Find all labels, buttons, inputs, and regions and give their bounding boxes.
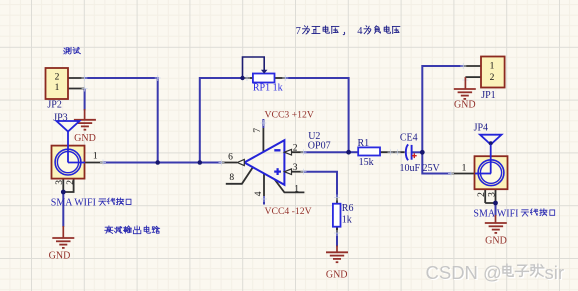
svg-text:8: 8	[229, 173, 234, 183]
svg-text:GND: GND	[326, 269, 348, 280]
pin RP1 right	[275, 77, 286, 79]
ground symbol JP1 GND	[454, 88, 476, 90]
svg-text:1: 1	[462, 164, 467, 174]
svg-text:OP07: OP07	[308, 140, 331, 151]
junction SMA1 shield	[61, 190, 66, 195]
svg-text:GND: GND	[49, 250, 71, 261]
ground symbol SMA2 stem	[495, 215, 497, 223]
svg-text:1: 1	[55, 83, 60, 93]
pin U2.3 line	[292, 171, 304, 173]
junction pin2 net	[346, 150, 351, 155]
wire VCC4 stub pin4	[263, 196, 265, 205]
svg-text:4: 4	[357, 26, 363, 37]
capacitor CE4 straight plate	[411, 145, 413, 160]
svg-text:4: 4	[254, 191, 264, 196]
svg-text:7: 7	[253, 128, 263, 133]
svg-text:VCC3 +12V: VCC3 +12V	[265, 109, 314, 120]
junction JP4 apex	[489, 141, 493, 145]
pin U2.6 output line	[222, 162, 238, 164]
junction JP2/main	[155, 160, 160, 165]
pin SMA1.3 stub	[62, 177, 64, 192]
svg-text:1: 1	[93, 151, 98, 161]
wire SMA1 center pin inner	[68, 162, 85, 164]
wire JP2 pin1 to GND	[84, 89, 86, 111]
ground symbol SMA2 GND	[485, 222, 507, 224]
watermark CSDN @电子张sir	[427, 263, 566, 284]
wire RP1 wiper loop	[243, 57, 265, 78]
svg-text:2: 2	[477, 192, 487, 197]
connector SMA2 inner ring	[480, 162, 501, 183]
svg-text:1k: 1k	[342, 214, 352, 225]
wire JP4 antenna feed	[490, 145, 492, 174]
wire JP2 pin2 to RP1 net (down to main wire)	[84, 78, 157, 163]
svg-text:JP2: JP2	[47, 100, 61, 111]
resistor RP1 wiper arrow	[261, 70, 268, 74]
connector SMA2 outer ring	[478, 160, 504, 186]
svg-text:sir: sir	[545, 262, 565, 283]
svg-text:GND: GND	[485, 235, 507, 246]
label 测试	[64, 47, 81, 54]
op-amp output arrow pin6	[237, 159, 244, 165]
svg-text:15k: 15k	[359, 157, 374, 168]
resistor R1 body	[358, 147, 380, 155]
label 衰减输出电路	[105, 226, 160, 234]
wire junction to R1	[349, 151, 359, 153]
pin JP1.1	[463, 65, 481, 67]
pin JP2.2	[68, 77, 84, 79]
svg-text:VCC4 -12V: VCC4 -12V	[265, 206, 312, 217]
svg-text:GND: GND	[454, 100, 476, 111]
svg-text:1: 1	[490, 62, 495, 72]
connector JP1 box	[481, 57, 505, 88]
wire pin2 to junction	[304, 151, 349, 153]
pin SMA2.1	[451, 173, 475, 175]
wire R1 to CE4	[380, 151, 405, 153]
connector SMA2 box	[475, 156, 508, 189]
svg-text:R6: R6	[342, 203, 354, 214]
antenna JP3	[57, 121, 80, 132]
pin JP1.2	[465, 76, 481, 78]
pin SMA1.2 stub	[63, 177, 73, 192]
op-amp input arrow pin3	[284, 169, 291, 175]
op-amp minus mark	[274, 149, 280, 151]
ground symbol SMA1 GND	[52, 237, 74, 239]
pin RP1 left	[244, 77, 253, 79]
wire VCC3 stub pin7	[262, 119, 264, 128]
wire junction to JP1 pin1	[422, 66, 463, 152]
capacitor CE4 curved plate	[406, 144, 408, 160]
junction CE4/JP1/SMA2	[420, 150, 425, 155]
wire JP3 antenna feed	[67, 132, 69, 163]
junction RP1 branch/main	[198, 160, 203, 165]
ground symbol SMA1 stem	[62, 226, 64, 238]
pin SMA2.2 stub	[484, 189, 486, 203]
wire SMA1 shield to GND	[62, 192, 64, 227]
wire main output net SMA1 to opamp pin6	[103, 162, 222, 164]
wire RP1 right to pin2 net	[285, 78, 348, 152]
svg-text:JP1: JP1	[481, 90, 495, 101]
ground symbol R6 stem	[336, 246, 338, 253]
pin U2.1 stub	[274, 179, 304, 192]
connector SMA1 inner ring	[57, 152, 78, 173]
pin R6 bottom	[336, 227, 338, 233]
wire junction to SMA2 pin1	[422, 152, 451, 173]
svg-text:2: 2	[490, 73, 495, 83]
svg-text:CSDN @: CSDN @	[426, 262, 502, 283]
svg-text:2: 2	[293, 143, 298, 153]
svg-text:2: 2	[66, 180, 76, 185]
pin U2.4 line	[263, 174, 265, 196]
wire SMA2 center pin inner	[475, 173, 491, 175]
svg-text:GND: GND	[74, 133, 96, 144]
connector SMA1 outer ring	[55, 149, 81, 175]
svg-text:1: 1	[294, 185, 299, 195]
resistor RP1 body	[253, 74, 275, 83]
pin hotspot crosses	[81, 75, 87, 81]
op-amp U2 triangle	[244, 140, 284, 185]
op-amp input arrow pin2	[284, 149, 291, 155]
capacitor CE4 plus mark	[412, 155, 417, 157]
svg-text:3: 3	[55, 180, 65, 185]
svg-text:SMA WIFI: SMA WIFI	[51, 198, 96, 209]
connector SMA1 box	[52, 146, 85, 179]
ground symbol R6 GND	[326, 251, 348, 253]
svg-text:7: 7	[296, 26, 301, 37]
op-amp plus mark	[274, 171, 281, 173]
pin U2.2 line	[292, 151, 304, 153]
pin JP2.1	[68, 88, 85, 90]
pin SMA2.3 stub	[485, 189, 495, 203]
ground symbol JP2 GND stem	[84, 109, 86, 120]
wire SMA2 shield to GND	[495, 203, 497, 216]
svg-text:RP1 1k: RP1 1k	[253, 83, 283, 94]
wire R6 to GND	[336, 227, 338, 247]
ground symbol JP2 GND	[74, 119, 96, 121]
wire RP1 branch vertical	[200, 78, 244, 163]
pin U2.7 line	[262, 128, 264, 152]
svg-text:10uF 25V: 10uF 25V	[400, 163, 441, 174]
svg-text:6: 6	[228, 152, 233, 162]
ground symbol JP1 stem	[464, 77, 466, 89]
svg-text:CE4: CE4	[400, 132, 418, 143]
pin R6 top	[336, 198, 338, 204]
wire CE4 to junction J5	[412, 151, 423, 153]
svg-text:3: 3	[293, 163, 298, 173]
svg-text:JP4: JP4	[474, 123, 488, 134]
wire opamp pin3 to R6	[304, 172, 338, 198]
svg-text:2: 2	[55, 73, 60, 83]
junction RP1 wiper	[240, 76, 244, 80]
resistor R6 body	[333, 204, 341, 227]
antenna JP4	[480, 135, 502, 145]
svg-text:3: 3	[487, 192, 497, 197]
pin SMA1.1	[85, 162, 103, 164]
connector JP2 box	[46, 68, 69, 99]
svg-text:R1: R1	[358, 138, 370, 149]
junction SMA2 shield	[493, 201, 498, 206]
pin U2.8 stub	[226, 168, 253, 184]
